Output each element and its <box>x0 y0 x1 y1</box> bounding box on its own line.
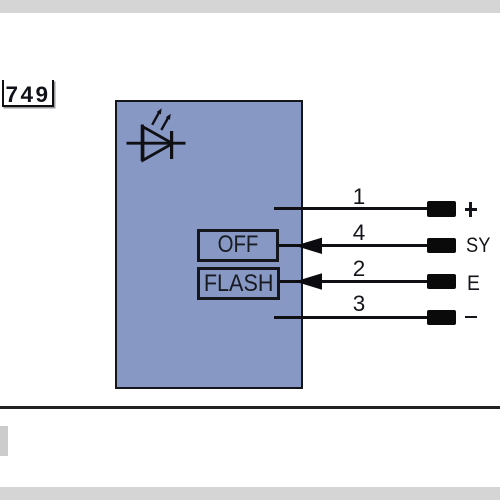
arrowhead wire 2 <box>293 273 323 291</box>
LED light arrow a <box>152 113 159 125</box>
pin number 4 <box>339 222 379 243</box>
terminal 2 <box>427 274 456 290</box>
component body (blue rectangle) <box>115 100 303 389</box>
top letterbox bar <box>0 0 500 13</box>
LED anode bar <box>141 125 144 162</box>
LED D1 symbol <box>105 100 200 170</box>
arrowhead wire 4 <box>293 237 323 255</box>
pin number 3 <box>339 293 379 314</box>
wire 3 <box>274 316 428 319</box>
net label SY <box>466 237 490 253</box>
pin number 1 <box>339 186 379 207</box>
footer rule line <box>0 406 500 409</box>
LED light arrow b <box>161 118 168 130</box>
pin number 2 <box>339 258 379 279</box>
net label − (minus sign) <box>465 316 477 319</box>
terminal 3 <box>427 310 456 326</box>
left edge gray block <box>0 426 8 456</box>
LED cathode bar <box>170 131 173 159</box>
LED wire <box>127 142 186 145</box>
LED triangle <box>143 127 173 160</box>
FLASH box <box>197 267 280 300</box>
net label E <box>467 275 480 291</box>
OFF box <box>197 229 279 262</box>
wire 4 <box>279 244 428 247</box>
net label + (plus sign) <box>469 202 472 218</box>
wire 1 <box>274 207 428 210</box>
terminal 4 <box>427 238 456 254</box>
bottom letterbox bar <box>0 487 500 500</box>
terminal 1 <box>427 201 456 217</box>
label 749 box <box>2 80 54 107</box>
wire 2 <box>280 280 428 283</box>
